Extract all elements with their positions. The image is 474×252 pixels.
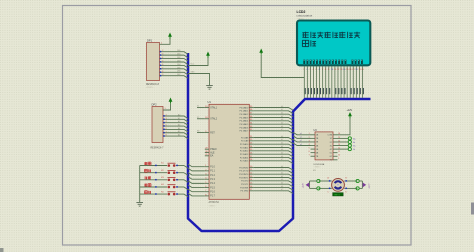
svg-text:X2: X2: [197, 117, 199, 119]
svg-text:b2: b2: [281, 113, 283, 115]
svg-text:5: 5: [162, 60, 163, 62]
svg-text:P2.2/A10: P2.2/A10: [240, 143, 249, 146]
svg-text:b6: b6: [281, 156, 283, 158]
svg-text:p0: p0: [300, 133, 302, 135]
svg-text:P0.3/AD3: P0.3/AD3: [240, 116, 250, 119]
svg-text:P2.6/A14: P2.6/A14: [240, 156, 249, 159]
svg-text:P3.3/INT1: P3.3/INT1: [239, 177, 249, 179]
svg-text:28BYJ: 28BYJ: [334, 194, 340, 196]
svg-text:P1.5: P1.5: [210, 187, 215, 189]
svg-text:DB7: DB7: [177, 74, 181, 76]
svg-text:A1: A1: [178, 117, 180, 120]
svg-text:7: 7: [166, 131, 167, 133]
svg-text:b7: b7: [281, 129, 283, 131]
svg-text:DB6: DB6: [177, 71, 181, 73]
svg-text:b1: b1: [281, 109, 283, 111]
svg-text:P3.4/T0: P3.4/T0: [241, 181, 249, 183]
svg-text:P1.2: P1.2: [210, 175, 215, 177]
svg-text:p2: p2: [300, 140, 302, 142]
svg-text:XTAL2: XTAL2: [210, 118, 217, 121]
svg-text:P1.1: P1.1: [210, 171, 215, 173]
svg-text:DB2: DB2: [177, 57, 181, 59]
svg-text:b7: b7: [281, 159, 283, 161]
svg-text:A0: A0: [178, 113, 180, 116]
svg-text:b2: b2: [281, 173, 283, 175]
svg-text:b1: b1: [281, 139, 283, 141]
svg-text:+12V: +12V: [367, 183, 369, 189]
svg-text:+12V: +12V: [347, 109, 353, 112]
svg-text:XTAL1: XTAL1: [210, 106, 217, 109]
svg-text:7: 7: [309, 155, 310, 157]
svg-text:4: 4: [166, 121, 167, 123]
svg-text:1: 1: [161, 42, 162, 44]
svg-text:P0.4/AD4: P0.4/AD4: [240, 120, 250, 123]
svg-text:A-: A-: [353, 141, 355, 144]
svg-text:4: 4: [162, 57, 163, 59]
svg-text:B-: B-: [353, 149, 355, 151]
svg-text:b3: b3: [281, 146, 283, 148]
svg-text:b1: b1: [281, 169, 283, 171]
svg-text:b0: b0: [281, 106, 283, 108]
svg-text:GND: GND: [191, 71, 196, 73]
svg-text:b4: b4: [281, 179, 283, 181]
svg-text:8: 8: [166, 135, 167, 137]
svg-text:6: 6: [166, 128, 167, 130]
svg-text:DB0: DB0: [177, 50, 181, 52]
svg-text:K3: K3: [161, 177, 163, 179]
svg-text:ALE: ALE: [210, 151, 215, 154]
svg-text:X1: X1: [197, 106, 199, 108]
svg-text:EA: EA: [210, 155, 214, 158]
svg-text:P3.5/T1: P3.5/T1: [241, 184, 249, 186]
svg-text:<TEXT>: <TEXT>: [314, 166, 322, 169]
svg-text:6: 6: [309, 151, 310, 153]
svg-text:LGM12641BS1R: LGM12641BS1R: [297, 16, 313, 18]
svg-text:P0.0/AD0: P0.0/AD0: [240, 106, 250, 109]
svg-text:P2.1/A9: P2.1/A9: [241, 140, 249, 143]
svg-text:P1.6: P1.6: [210, 192, 215, 194]
svg-text:DB4: DB4: [177, 64, 181, 66]
svg-text:3: 3: [162, 54, 163, 56]
svg-text:p3: p3: [300, 144, 302, 146]
svg-text:DB5: DB5: [177, 67, 181, 69]
svg-text:1: 1: [165, 108, 166, 110]
svg-text:b6: b6: [281, 126, 283, 128]
svg-text:DB1: DB1: [177, 54, 181, 56]
svg-text:RST: RST: [210, 132, 215, 134]
svg-text:16: 16: [338, 133, 340, 135]
svg-text:P0.5/AD5: P0.5/AD5: [240, 123, 250, 126]
svg-text:U1: U1: [208, 100, 212, 104]
svg-text:P0.1/AD1: P0.1/AD1: [240, 110, 250, 113]
svg-text:P2.4/A12: P2.4/A12: [240, 150, 249, 153]
svg-text:<TEXT>: <TEXT>: [297, 18, 305, 21]
svg-text:P3.7/RD: P3.7/RD: [241, 191, 249, 193]
svg-text:b3: b3: [281, 116, 283, 118]
svg-text:A2: A2: [178, 120, 180, 123]
svg-text:+12V: +12V: [302, 183, 304, 189]
svg-text:DP1: DP1: [147, 39, 153, 43]
svg-text:P0.7/AD7: P0.7/AD7: [240, 130, 250, 133]
svg-text:<TEXT>: <TEXT>: [146, 86, 154, 89]
svg-text:9: 9: [162, 74, 163, 76]
svg-text:P1.0: P1.0: [210, 167, 215, 169]
svg-text:P2.0/A8: P2.0/A8: [241, 136, 249, 139]
svg-text:b5: b5: [281, 123, 283, 125]
svg-text:6: 6: [162, 64, 163, 66]
svg-text:p1: p1: [300, 137, 302, 139]
svg-text:P1.3: P1.3: [210, 179, 215, 181]
svg-text:A5: A5: [178, 130, 180, 133]
svg-text:b4: b4: [281, 149, 283, 151]
svg-text:K5: K5: [161, 191, 163, 193]
svg-text:3: 3: [166, 118, 167, 120]
svg-text:P1.7: P1.7: [210, 196, 215, 198]
svg-text:P2.3/A11: P2.3/A11: [240, 146, 249, 149]
svg-text:LCD2: LCD2: [297, 10, 306, 14]
svg-text:COM: COM: [328, 135, 333, 137]
svg-text:DP2: DP2: [152, 103, 158, 107]
svg-text:P3.2/INT0: P3.2/INT0: [239, 174, 249, 176]
svg-text:K2: K2: [161, 170, 163, 172]
svg-text:P2.5/A13: P2.5/A13: [240, 153, 249, 156]
svg-text:9: 9: [338, 158, 339, 160]
svg-text:2: 2: [162, 50, 163, 52]
svg-text:ULN2003A: ULN2003A: [314, 163, 325, 166]
svg-text:b2: b2: [281, 143, 283, 145]
svg-text:b5: b5: [281, 153, 283, 155]
svg-text:K1: K1: [161, 163, 163, 165]
svg-text:b0: b0: [281, 136, 283, 138]
svg-text:<TEXT>: <TEXT>: [209, 204, 217, 207]
svg-text:A6: A6: [178, 134, 180, 137]
svg-text:11: 11: [338, 151, 340, 153]
svg-text:b4: b4: [281, 119, 283, 121]
svg-text:b3: b3: [281, 176, 283, 178]
svg-text:PSEN: PSEN: [210, 149, 217, 151]
svg-text:P0.6/AD6: P0.6/AD6: [240, 126, 250, 129]
svg-text:DB3: DB3: [177, 60, 181, 62]
svg-text:10: 10: [338, 155, 340, 157]
svg-text:P1.4: P1.4: [210, 183, 215, 185]
svg-text:2: 2: [166, 115, 167, 117]
svg-text:P0.2/AD2: P0.2/AD2: [240, 113, 250, 116]
svg-text:b7: b7: [281, 189, 283, 191]
svg-text:P3.1/TXD: P3.1/TXD: [239, 171, 248, 173]
svg-text:8: 8: [162, 71, 163, 73]
svg-text:5: 5: [166, 125, 167, 127]
svg-text:RESPACK-8: RESPACK-8: [146, 83, 160, 86]
svg-text:P3.6/WR: P3.6/WR: [240, 187, 249, 189]
svg-text:K4: K4: [161, 184, 163, 186]
svg-text:A4: A4: [178, 127, 180, 130]
svg-text:b0: b0: [281, 166, 283, 168]
svg-text:5: 5: [309, 147, 310, 149]
svg-text:P3.0/RXD: P3.0/RXD: [239, 167, 249, 169]
svg-text:A3: A3: [178, 123, 180, 126]
svg-text:P2.7/A15: P2.7/A15: [240, 160, 249, 163]
svg-text:b6: b6: [281, 186, 283, 188]
svg-text:b5: b5: [281, 183, 283, 185]
svg-text:RESPACK-7: RESPACK-7: [151, 147, 165, 150]
svg-text:AT89C52: AT89C52: [209, 201, 220, 204]
svg-text:7: 7: [162, 67, 163, 69]
